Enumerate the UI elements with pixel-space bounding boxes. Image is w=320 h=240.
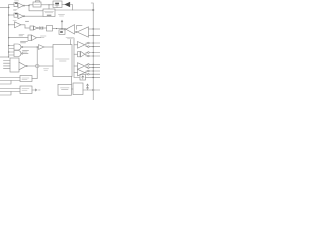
wire Q1 in jog bbox=[70, 5, 73, 11]
wire BL1 in a bbox=[0, 77, 20, 79]
antenna arrows bbox=[87, 84, 89, 90]
label U5 in bbox=[19, 34, 24, 35]
label G5a bbox=[21, 41, 28, 43]
block BL2 bbox=[20, 86, 32, 94]
buffer B1r bbox=[74, 42, 100, 49]
block ANT1 bbox=[73, 83, 83, 95]
wire sum bottom bbox=[36, 68, 38, 79]
wire U5 out bbox=[37, 37, 41, 39]
label U1 bbox=[14, 9, 18, 10]
node pll tap bbox=[48, 4, 49, 5]
label U10 bbox=[56, 59, 70, 61]
wire ant out bbox=[83, 89, 100, 91]
wire U1 out bbox=[25, 5, 29, 7]
node trunk top bbox=[92, 9, 94, 11]
wire BL2 out arrow bbox=[32, 89, 40, 91]
wire BL1 out up bbox=[32, 78, 37, 80]
wire lo arrow bbox=[61, 20, 63, 28]
wire G5a out bbox=[23, 46, 38, 48]
wire rx into block bbox=[70, 40, 72, 45]
wire SW1 out bbox=[86, 77, 101, 79]
dac MX1 bbox=[4, 58, 28, 72]
wire TX1 to ANT1 bbox=[72, 88, 74, 90]
node trunk bottom bbox=[92, 89, 94, 91]
buffer U2 bbox=[9, 13, 25, 19]
node bus tap U3 bbox=[8, 24, 9, 25]
wire left vertical bus bbox=[8, 5, 10, 57]
block A1 top pll bbox=[33, 2, 41, 7]
wire T5 out bbox=[44, 46, 53, 48]
buffer U1 bbox=[9, 3, 25, 9]
wire A1 left pin bbox=[29, 5, 43, 11]
wire right bus vertical bbox=[74, 38, 80, 78]
wire U3 out bbox=[21, 25, 25, 28]
wire D1 out bbox=[53, 28, 65, 30]
wire Q2 in upper bbox=[89, 28, 101, 30]
switch SW1 bbox=[80, 75, 86, 81]
label sum out bbox=[44, 69, 49, 70]
wire T1 top jog bbox=[77, 25, 82, 29]
node A1 in bbox=[28, 5, 29, 6]
wire Q2 in lower bbox=[89, 34, 101, 36]
wire block bottom drop bbox=[71, 77, 73, 85]
wire sum out bbox=[39, 65, 53, 67]
block U10 main bbox=[53, 45, 72, 77]
buffer G5b bbox=[9, 51, 23, 57]
wire BL2 stub c bbox=[0, 92, 11, 96]
wire BL2 in b bbox=[0, 91, 20, 93]
wire U4 out bbox=[38, 27, 39, 29]
buffer B2r bbox=[74, 51, 100, 57]
buffer U3 bbox=[9, 22, 21, 28]
crystal Y1 bbox=[40, 27, 43, 30]
summing node S1 bbox=[35, 64, 39, 68]
wire input left bbox=[0, 7, 9, 9]
node input junction bbox=[8, 7, 9, 8]
label U5 out bbox=[41, 36, 47, 37]
wire sum top bbox=[36, 47, 38, 64]
amplifier Q2 bbox=[76, 27, 89, 37]
wire X1 out to trunk bbox=[55, 9, 93, 11]
buffer U4 bbox=[25, 26, 38, 30]
block D1 bbox=[47, 26, 53, 32]
wire left stub bbox=[0, 56, 9, 58]
wire Q1 out bbox=[62, 4, 65, 6]
node bus tap U5 bbox=[8, 37, 9, 38]
buffer B3r bbox=[74, 63, 100, 70]
node tap T5 bbox=[37, 46, 38, 47]
label G5b bbox=[23, 51, 29, 52]
node bus tap U2 bbox=[8, 14, 9, 15]
wire G5b out bbox=[23, 53, 28, 55]
wire right trunk upper bbox=[91, 3, 93, 100]
label BL1 bbox=[22, 78, 29, 80]
label X1 bbox=[45, 11, 54, 13]
node trunk sw bbox=[93, 77, 94, 78]
label BL2 bbox=[22, 89, 29, 91]
label lo bbox=[59, 15, 65, 16]
label U3 out bbox=[26, 20, 29, 22]
buffer G5a bbox=[9, 44, 23, 50]
label U2 below bbox=[13, 20, 16, 22]
buffer T5 bbox=[39, 45, 45, 50]
node trunk q2b bbox=[93, 35, 94, 36]
block TX1 bbox=[58, 84, 72, 95]
wire Y1 out bbox=[43, 27, 47, 29]
node lo mid bbox=[56, 28, 57, 29]
wire down to X1 bbox=[48, 5, 50, 9]
wire A1 right to mixer bbox=[41, 4, 54, 6]
wire BL2 in a bbox=[0, 88, 20, 90]
mixer M1 bbox=[53, 1, 62, 8]
node bus bottom tap bbox=[8, 56, 9, 57]
amplifier T1 rx bbox=[65, 25, 75, 34]
wire A1 top pin bbox=[35, 1, 40, 2]
node trunk q2a bbox=[93, 28, 94, 29]
buffer B4r bbox=[74, 69, 100, 76]
wire BL1 in b bbox=[0, 80, 20, 82]
block X1 synthesizer bbox=[43, 9, 55, 17]
wire BL1 stub c bbox=[0, 81, 11, 85]
label TX1 bbox=[61, 88, 70, 90]
wire U2 to X1 bbox=[25, 15, 43, 17]
block BL1 bbox=[20, 76, 32, 82]
block F1 filter bbox=[59, 30, 65, 35]
amplifier Q1 bbox=[65, 2, 70, 6]
wire mux out bbox=[27, 65, 35, 67]
label T1 bbox=[66, 37, 74, 38]
node lo tap bbox=[61, 28, 62, 29]
node bus taps G5 bbox=[8, 45, 9, 46]
label U1 top bbox=[15, 0, 19, 2]
buffer U5 bbox=[9, 35, 37, 41]
